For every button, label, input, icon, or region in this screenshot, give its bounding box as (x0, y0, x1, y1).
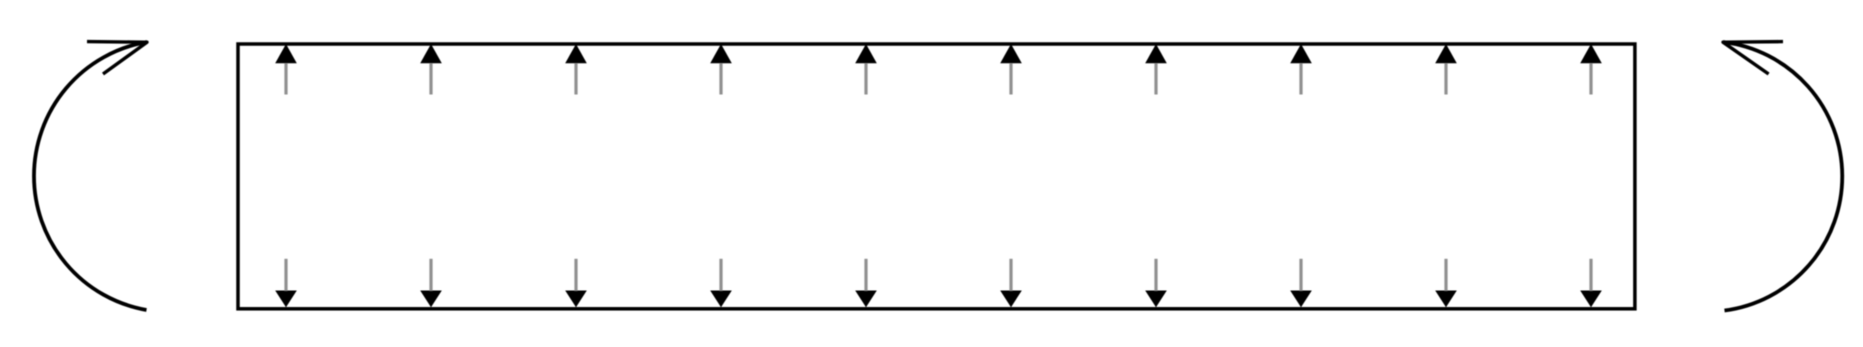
bottom compression arrow B5 stem (864, 259, 867, 291)
bottom compression arrow B8 stem (1299, 259, 1302, 291)
bottom compression arrow B3 stem (574, 259, 577, 291)
top tension arrow T7 head (1145, 44, 1167, 63)
beam outline rectangle (238, 44, 1635, 309)
top tension arrow T5 head (855, 44, 877, 63)
right moment arrow M (arc) (1723, 42, 1842, 311)
top tension arrow T8 stem (1299, 63, 1302, 95)
bottom compression arrow B4 stem (719, 259, 722, 291)
bottom compression arrow B2 head (420, 291, 442, 308)
bottom compression arrow B9 head (1435, 291, 1457, 308)
top tension arrow T7 stem (1154, 63, 1157, 95)
bottom compression arrow B1 head (275, 291, 297, 308)
top tension arrow T2 head (420, 44, 442, 63)
bottom compression arrow B4 head (710, 291, 732, 308)
bottom compression arrow B2 stem (429, 259, 432, 291)
bottom compression arrow B7 stem (1154, 259, 1157, 291)
top tension arrow T4 head (710, 44, 732, 63)
top tension arrow T1 head (275, 44, 297, 63)
top tension arrow T9 stem (1444, 63, 1447, 95)
bottom compression arrow B5 head (855, 291, 877, 308)
top tension arrow T2 stem (429, 63, 432, 95)
top tension arrow T10 head (1580, 44, 1602, 63)
top tension arrow T6 head (1000, 44, 1022, 63)
bottom compression arrow B6 stem (1009, 259, 1012, 291)
bottom compression arrow B1 stem (284, 259, 287, 291)
top tension arrow T9 head (1435, 44, 1457, 63)
top tension arrow T8 head (1290, 44, 1312, 63)
bottom compression arrow B6 head (1000, 291, 1022, 308)
top tension arrow T1 stem (284, 63, 287, 95)
bottom compression arrow B10 head (1580, 291, 1602, 308)
bottom compression arrow B3 head (565, 291, 587, 308)
top tension arrow T10 stem (1589, 63, 1592, 95)
bottom compression arrow B8 head (1290, 291, 1312, 308)
left moment arrowhead (87, 42, 147, 74)
right moment arrowhead (1723, 42, 1783, 74)
top tension arrow T4 stem (719, 63, 722, 95)
left moment arrow M (arc) (34, 42, 147, 310)
top tension arrow T6 stem (1009, 63, 1012, 95)
bottom compression arrow B10 stem (1589, 259, 1592, 291)
bottom compression arrow B7 head (1145, 291, 1167, 308)
bottom compression arrow B9 stem (1444, 259, 1447, 291)
top tension arrow T3 stem (574, 63, 577, 95)
top tension arrow T5 stem (864, 63, 867, 95)
top tension arrow T3 head (565, 44, 587, 63)
